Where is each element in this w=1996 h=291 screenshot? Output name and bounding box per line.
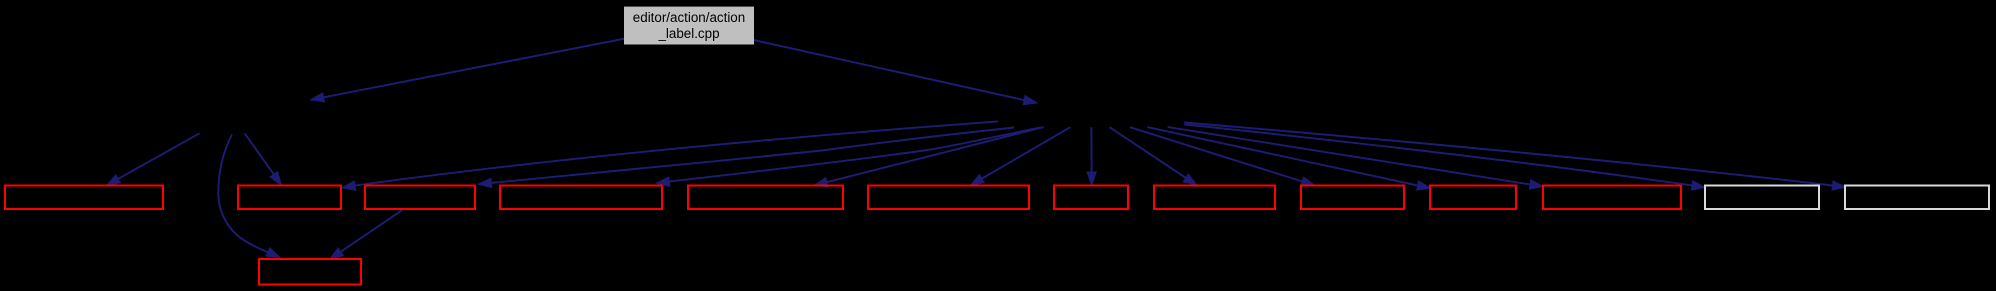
node b4 include box: [500, 186, 662, 210]
edge nB to b4: [656, 128, 1040, 187]
node b12 include box: [1705, 186, 1819, 210]
edge nB to b3: [478, 128, 1014, 188]
node n0: editor/action/action_label.cpp: [624, 7, 754, 45]
edge nB to b2: [342, 121, 998, 190]
edge nA to b2: [245, 134, 282, 186]
node b5 include box: [688, 186, 843, 210]
edge nB to b5: [814, 127, 1044, 187]
node b7 include box: [1054, 186, 1128, 210]
edge nA to bot: [218, 135, 280, 258]
edge n0 to nA: [311, 38, 626, 102]
edge nB to b7: [1087, 127, 1096, 185]
node b8 include box: [1154, 186, 1275, 210]
node b6 include box: [868, 186, 1029, 210]
svg-text:editor/action/action: editor/action/action: [633, 10, 745, 25]
node b13 include box: [1845, 186, 1989, 210]
node b1 include box: [5, 186, 163, 210]
node b11 include box: [1543, 186, 1681, 210]
node b10 include box: [1430, 186, 1516, 210]
edge nB to b8: [1110, 127, 1197, 185]
node b2 include box: [238, 186, 341, 210]
edge nB to b6: [970, 127, 1070, 185]
edge nB to b9: [1130, 127, 1315, 186]
node b3 include box: [365, 186, 475, 210]
edge nB to b13: [1184, 123, 1846, 191]
edge nB to b10: [1147, 127, 1430, 190]
node bot include box: [259, 259, 361, 285]
edge nA to b1: [107, 133, 200, 185]
edge nB to b11: [1168, 127, 1544, 189]
edge nB to b12: [1184, 124, 1705, 190]
edge b3 to bot: [330, 210, 403, 259]
edge n0 to nB: [754, 40, 1037, 105]
svg-text:_label.cpp: _label.cpp: [657, 26, 719, 41]
node b9 include box: [1301, 186, 1404, 210]
